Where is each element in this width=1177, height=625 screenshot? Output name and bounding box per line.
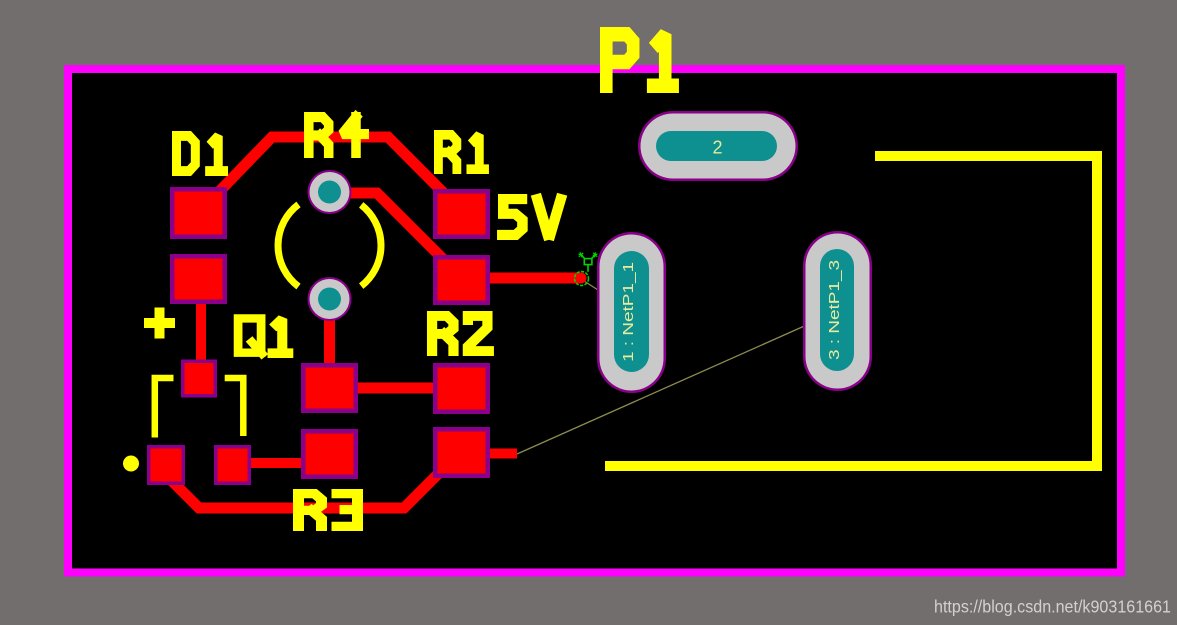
svg-text:https://blog.csdn.net/k9031616: https://blog.csdn.net/k903161661 (934, 597, 1171, 617)
pad P1-2 horizontal stadium (638, 111, 798, 181)
wire R4 top pad to R1 pad2 (330, 193, 462, 278)
silkscreen yellow graphics (144, 156, 1097, 466)
wire R3 from pad B to R2 pad2 (163, 452, 461, 509)
svg-text:1 : NetP1_1: 1 : NetP1_1 (620, 262, 637, 362)
pad R2-2 (433, 427, 490, 478)
pad P1-3 vertical stadium (803, 231, 872, 391)
label R1 (438, 135, 484, 169)
selection marker green (575, 252, 598, 285)
ratsnest line from R2 stub to pad 3 (517, 311, 838, 454)
svg-text:2: 2 (712, 138, 722, 158)
pad P1-1 vertical stadium (597, 232, 666, 393)
D1 silk bracket left (155, 378, 174, 438)
pad B small (147, 445, 185, 485)
silk dot (123, 456, 139, 472)
label D1 (177, 136, 224, 171)
label Q1 (238, 318, 288, 353)
board black area (68, 69, 1121, 572)
silkscreen text labels (177, 34, 673, 526)
plus sign (144, 308, 175, 339)
wire R1 pad2 to net point (462, 273, 582, 284)
R4 silk arc left (278, 204, 298, 286)
pad Q1-2 (301, 429, 358, 479)
R4 silk arc right (361, 205, 381, 286)
ratsnest line from trace end to pad 1 (581, 279, 632, 312)
label 5V (502, 199, 560, 235)
wire pad C to Q1 pad2 (233, 458, 302, 468)
wire R4 bottom pad to Q1 pad (324, 299, 335, 388)
pad R1-1 (433, 189, 490, 239)
wire Q1 pad to R2 pad1 (358, 383, 433, 394)
label R4 (309, 117, 364, 153)
svg-text:3 : NetP1_3: 3 : NetP1_3 (826, 260, 843, 360)
pad C small (214, 445, 251, 485)
label R3 (299, 494, 358, 527)
pad R1-2 (433, 255, 490, 305)
R4 round pad bottom (308, 277, 352, 321)
wire R2 pad2 stub (462, 449, 518, 459)
P1 connector silk outline (605, 156, 1097, 466)
label P1 (606, 34, 672, 85)
label R2 (432, 316, 489, 351)
wire D1 pad2 to pad A (196, 279, 206, 378)
R4 round pad top (308, 170, 352, 214)
pad Q1-1 (301, 363, 358, 413)
pad A small (181, 360, 217, 398)
board outline magenta border (68, 69, 1121, 573)
pad D1-1 (170, 187, 227, 239)
wire D1 pad1 to R1 pad1 via R4 top (199, 137, 462, 213)
pad D1-2 (170, 254, 227, 304)
D1 silk bracket right (225, 378, 244, 436)
pad R2-1 (433, 363, 490, 414)
